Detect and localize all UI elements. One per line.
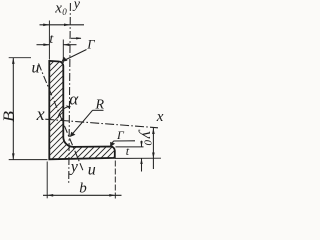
r leader top <box>71 37 81 39</box>
extension top face of bottom leg (right) <box>116 146 144 148</box>
y axis (centroid vertical) <box>69 3 71 185</box>
hatching <box>0 0 277 210</box>
extension bottom face (right) <box>115 157 161 159</box>
extension line right face top <box>62 40 64 64</box>
svg-text:α: α <box>69 90 79 109</box>
x axis <box>45 119 158 128</box>
svg-text:x: x <box>54 1 62 17</box>
svg-text:x: x <box>156 109 164 125</box>
y0 dimension <box>152 128 154 169</box>
svg-text:u: u <box>32 60 40 77</box>
angle profile outline <box>49 61 115 159</box>
svg-text:В: В <box>1 111 18 122</box>
t dimension (vertical leg) <box>37 44 50 46</box>
label y0 rotated <box>138 129 157 146</box>
svg-text:Γ: Γ <box>116 128 125 142</box>
svg-text:u: u <box>88 162 96 179</box>
u axis <box>39 64 84 171</box>
svg-text:Γ: Γ <box>86 36 95 51</box>
extension line left face top <box>48 21 50 60</box>
svg-text:0: 0 <box>142 140 154 146</box>
svg-text:x: x <box>36 104 45 124</box>
b dimension <box>46 162 48 199</box>
B dimension <box>12 58 14 160</box>
svg-text:у: у <box>69 159 79 176</box>
t dimension (bottom leg) <box>141 141 143 147</box>
svg-text:у: у <box>72 0 81 12</box>
alpha angle arc <box>58 106 70 118</box>
x0 dimension <box>40 24 85 26</box>
svg-text:0: 0 <box>62 7 67 17</box>
svg-text:у: у <box>138 129 157 139</box>
svg-text:b: b <box>79 181 87 197</box>
